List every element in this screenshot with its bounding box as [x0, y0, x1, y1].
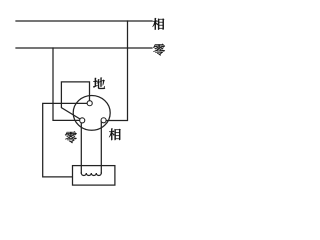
terminal: neutral pin hole	[80, 118, 85, 123]
appliance case (box)	[73, 166, 115, 186]
wire: phase bus line	[16, 20, 152, 22]
appliance coil (heating element, 4 arcs)	[81, 173, 101, 176]
label: 零 (neutral) at socket bottom-left terminal	[65, 131, 77, 143]
wire: neutral lead from socket down to appliance coil	[80, 123, 82, 173]
wire: earth wire from earth terminal to appliance case	[43, 103, 87, 176]
label: 相 (phase) at bus right end	[152, 18, 164, 30]
wire: phase lead from socket down to appliance coil	[100, 121, 102, 173]
terminal: phase pin hole	[101, 118, 106, 123]
socket outline circle	[73, 96, 110, 131]
wire: loop linking earth terminal to neutral terminal	[61, 82, 89, 119]
label: 零 (neutral) at bus right end	[153, 44, 165, 56]
wire: neutral bus line	[16, 47, 152, 49]
wire: phase drop from bus to socket phase terminal	[106, 21, 127, 121]
label: 地 (earth) at socket top terminal	[93, 78, 105, 89]
label: 相 (phase) at socket bottom-right terminal	[109, 128, 121, 140]
terminal: earth pin hole	[87, 101, 92, 106]
wire: neutral drop from bus to socket neutral terminal	[53, 48, 80, 120]
